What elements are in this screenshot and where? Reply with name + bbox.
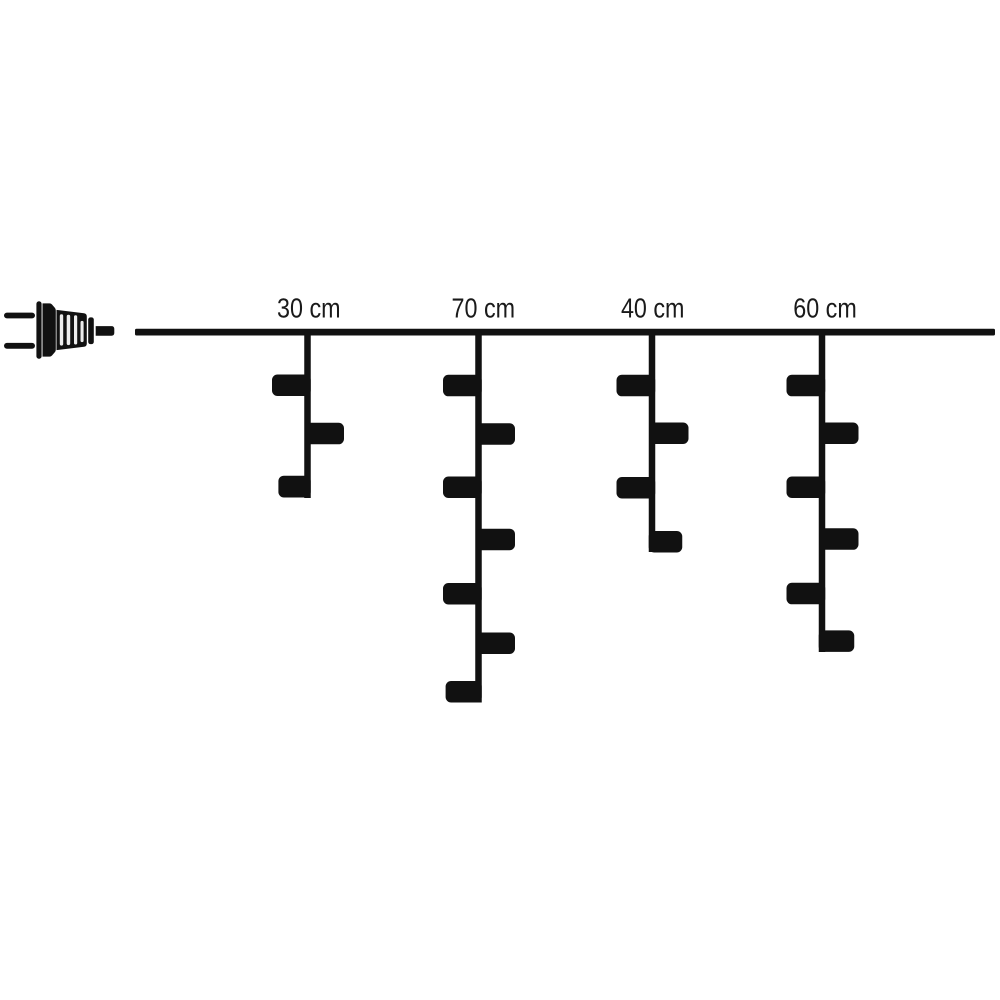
bulb D3-3 left xyxy=(617,477,656,499)
plug body block xyxy=(43,303,56,356)
drop wire 2 (70 cm) xyxy=(475,332,482,703)
svg-text:30 cm: 30 cm xyxy=(277,293,341,324)
bulb D1-3 bottom left xyxy=(278,476,310,498)
cone white slot 3 xyxy=(74,315,77,344)
bulb D4-6 bottom right xyxy=(819,630,855,652)
main horizontal wire xyxy=(135,329,995,336)
plug end collar xyxy=(88,317,94,344)
bulb D1-1 left xyxy=(272,375,311,397)
bulb D3-4 bottom right xyxy=(649,531,683,553)
plug flange plate xyxy=(36,301,41,359)
bulb D3-2 right xyxy=(650,423,689,445)
bulb D2-3 left xyxy=(443,477,482,499)
drop wire 3 (40 cm) xyxy=(649,332,656,552)
plug bottom prong xyxy=(4,343,35,349)
bulb D2-1 left xyxy=(443,375,482,397)
plug top prong xyxy=(4,313,35,319)
power plug xyxy=(4,301,114,359)
bulb D4-3 left xyxy=(787,477,826,499)
drop wire 1 (30 cm) xyxy=(304,332,311,498)
cone white slot 1 xyxy=(60,314,63,345)
svg-text:40 cm: 40 cm xyxy=(621,293,685,324)
plug cable stub xyxy=(96,326,115,336)
bulb D1-2 right xyxy=(305,423,344,445)
svg-text:70 cm: 70 cm xyxy=(452,293,516,324)
svg-text:60 cm: 60 cm xyxy=(793,293,857,324)
bulb D2-4 right xyxy=(476,529,515,551)
cone white slot 2 xyxy=(67,315,71,345)
bulb D4-5 left xyxy=(787,583,826,605)
bulb D4-1 left xyxy=(787,375,826,397)
bulb D2-6 right xyxy=(476,633,515,655)
bulb D4-4 right xyxy=(820,528,859,550)
plug ridged cone xyxy=(57,310,87,350)
bulb D2-5 left xyxy=(443,583,482,605)
bulb D2-2 right xyxy=(476,423,515,445)
cone white slot 4 xyxy=(81,321,84,342)
bulb D4-2 right xyxy=(820,423,859,445)
drop wire 4 (60 cm) xyxy=(819,332,826,652)
bulb D3-1 left xyxy=(617,375,656,397)
bulb D2-7 bottom left xyxy=(446,681,482,703)
